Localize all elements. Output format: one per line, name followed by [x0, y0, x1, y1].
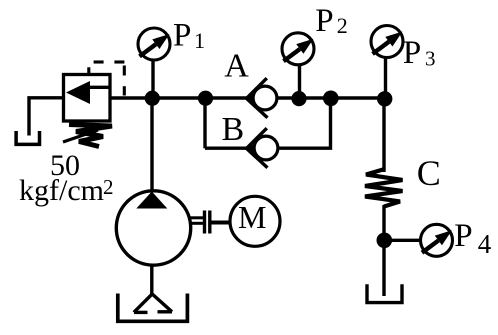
- svg-text:P: P: [454, 218, 472, 254]
- svg-text:M: M: [238, 199, 266, 235]
- svg-text:3: 3: [425, 47, 436, 71]
- svg-text:4: 4: [478, 229, 492, 259]
- svg-text:C: C: [417, 153, 441, 193]
- svg-text:B: B: [222, 111, 245, 148]
- svg-text:P: P: [173, 18, 191, 54]
- svg-text:A: A: [224, 48, 249, 85]
- svg-text:1: 1: [194, 28, 205, 53]
- svg-text:P: P: [315, 3, 333, 39]
- svg-text:2: 2: [103, 175, 114, 199]
- svg-text:2: 2: [337, 13, 348, 38]
- svg-text:P: P: [403, 35, 421, 71]
- svg-text:kgf/cm: kgf/cm: [19, 174, 104, 207]
